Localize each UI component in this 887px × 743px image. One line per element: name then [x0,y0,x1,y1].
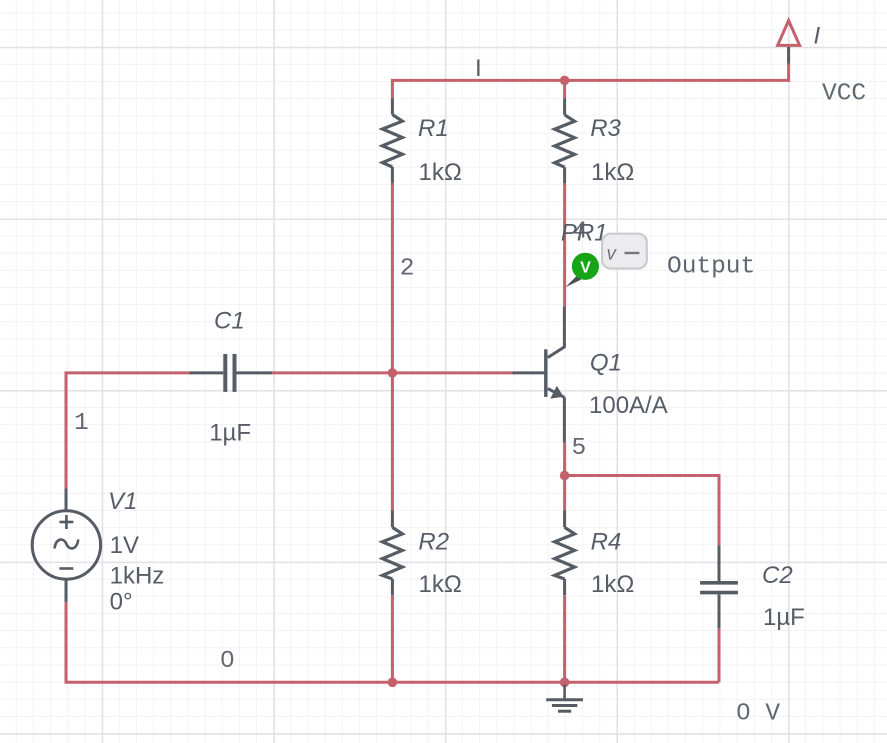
wire: top rail from R1 top to VCC corner [392,64,788,99]
wire: R2 bottom to ground rail [391,595,394,682]
VCC symbol [778,21,800,46]
svg-text:100A/A: 100A/A [589,392,668,419]
svg-text:Q1: Q1 [590,349,622,376]
capacitor C2 [700,545,738,628]
svg-text:R3: R3 [590,115,621,142]
resistor R4 [555,511,575,596]
Q1 emitter arrow [550,386,563,399]
svg-text:I: I [475,55,482,82]
wire: C2 bottom to ground rail [718,628,721,682]
VCC pin [787,47,790,64]
junction node 2/base [388,368,398,378]
svg-text:v: v [607,244,618,265]
transistor Q1 [513,307,565,443]
wire: R1 bottom to base junction [391,183,394,373]
svg-text:Output: Output [667,254,755,281]
resistor R3 [555,98,575,183]
svg-text:1kΩ: 1kΩ [591,571,634,598]
junction node 5 [560,471,570,481]
svg-text:0°: 0° [110,588,133,615]
svg-text:1kΩ: 1kΩ [591,159,634,186]
wire: R4 bottom to ground rail [563,595,566,682]
resistor R1 [382,98,402,183]
wire: top rail junction to R3 top [563,80,566,98]
svg-text:VCC: VCC [822,80,866,107]
svg-text:R4: R4 [591,528,622,555]
sine [55,540,79,549]
svg-text:1µF: 1µF [763,604,805,631]
svg-text:R2: R2 [418,528,449,555]
junction ground rail left [388,678,398,688]
svg-text:I: I [814,23,821,50]
probe PR1 [565,253,599,288]
wire: base horizontal + left vertical [66,373,190,489]
wire: C1 right to base [272,371,513,374]
svg-text:1: 1 [74,410,89,437]
svg-text:1V: 1V [110,532,139,559]
svg-text:1kΩ: 1kΩ [419,571,462,598]
svg-text:V1: V1 [108,488,137,515]
resistor R2 [382,511,402,596]
svg-text:V: V [580,259,591,276]
minus sign [59,567,73,570]
plus sign [59,521,73,524]
capacitor C1 [190,354,272,392]
svg-text:R1: R1 [418,115,449,142]
svg-text:PR1: PR1 [561,219,608,246]
wire: R3 bottom to Q1 collector [563,183,566,306]
wire: V1 bottom to ground rail [66,602,719,683]
svg-text:1kΩ: 1kΩ [419,159,462,186]
svg-text:5: 5 [572,435,587,462]
wire: base junction down to R2 top [391,373,394,511]
svg-text:C2: C2 [762,562,793,589]
probe chip box [602,234,647,269]
source V1 [32,489,100,602]
wire: node 5 to C2 top [565,476,719,546]
svg-text:2: 2 [400,256,415,283]
svg-text:1kHz: 1kHz [110,563,165,590]
junction ground rail right [560,678,570,688]
svg-text:1µF: 1µF [209,419,251,446]
svg-text:C1: C1 [214,307,245,334]
junction node top rail [560,76,570,86]
wire: Q1 emitter to node 5 and R4 top [563,443,566,511]
ground [546,685,583,712]
